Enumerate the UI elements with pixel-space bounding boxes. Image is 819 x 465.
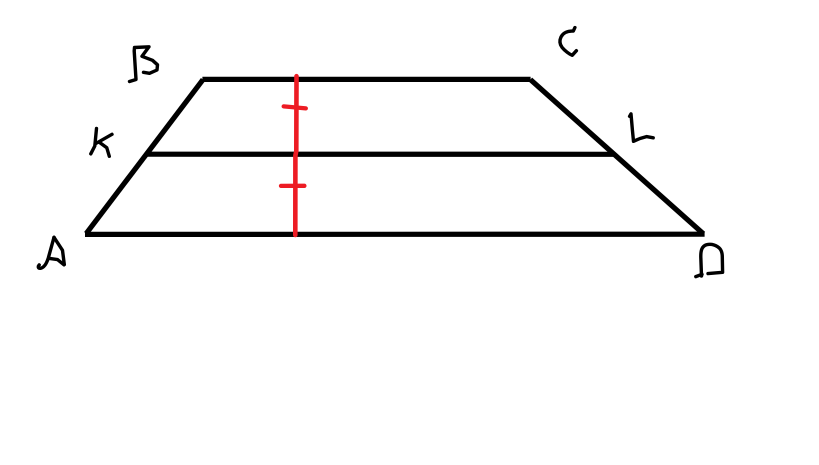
red tick mark upper xyxy=(284,106,306,108)
side CD (right leg) xyxy=(530,80,703,234)
midsegment KL xyxy=(146,152,615,157)
side BC (top edge) xyxy=(202,77,530,82)
vertex label C xyxy=(560,28,576,56)
red tick mark lower xyxy=(281,184,304,188)
vertex label A xyxy=(38,237,64,268)
vertex label B xyxy=(130,47,158,82)
point label K xyxy=(91,129,112,157)
vertex label D xyxy=(696,244,723,276)
point label L xyxy=(630,114,654,141)
side DA (bottom edge) xyxy=(85,232,705,237)
side AB (left leg) xyxy=(86,80,203,234)
red vertical line xyxy=(295,76,296,235)
